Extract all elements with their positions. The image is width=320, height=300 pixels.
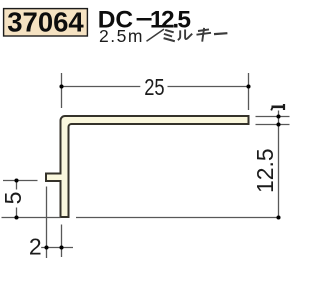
svg-text:2: 2 (29, 233, 42, 259)
svg-text:2.5m: 2.5m (99, 26, 143, 46)
svg-text:37064: 37064 (7, 6, 84, 37)
svg-text:25: 25 (144, 74, 164, 100)
svg-text:12.5: 12.5 (150, 6, 191, 33)
svg-text:5: 5 (0, 192, 26, 205)
svg-text:12.5: 12.5 (252, 148, 278, 193)
